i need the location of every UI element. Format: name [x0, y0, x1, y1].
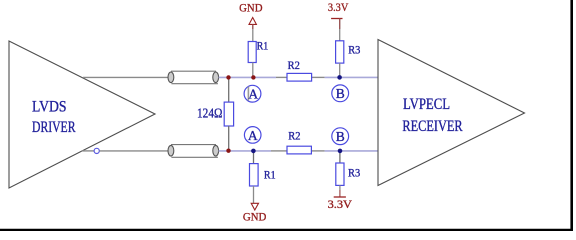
svg-text:R3: R3: [348, 166, 360, 180]
wire T2 output to node A bottom (lavender): [219, 150, 271, 152]
ground symbol bottom: [251, 203, 258, 210]
svg-text:A: A: [248, 87, 258, 102]
node B top circle: [332, 85, 349, 102]
svg-text:B: B: [336, 86, 345, 101]
label LVDS DRIVER: [32, 99, 76, 137]
junction dot T2/124Ω: [226, 149, 230, 153]
ground symbol top: [249, 18, 256, 30]
wire T1 output to node A (lavender): [219, 76, 276, 78]
node A bottom circle: [244, 127, 261, 144]
svg-text:LVPECL: LVPECL: [403, 96, 450, 113]
label 3.3V bottom: [328, 197, 353, 211]
value label 124Ω: [197, 107, 222, 122]
label GND bottom: [243, 210, 267, 224]
svg-text:RECEIVER: RECEIVER: [402, 118, 463, 135]
svg-text:124Ω: 124Ω: [197, 107, 222, 122]
label R2 bottom: [288, 128, 300, 142]
power symbol 3.3V top: [331, 19, 342, 30]
resistor R2 top: [287, 73, 312, 81]
svg-text:GND: GND: [243, 210, 267, 224]
junction dot T1/124Ω: [226, 75, 230, 79]
wire R2 right to node B bottom then receiver: [312, 150, 379, 152]
label LVPECL RECEIVER: [402, 96, 463, 135]
resistor 124Ω between pair: [224, 77, 233, 150]
transmission line T1 (top cable): [168, 71, 219, 84]
wire driver inverting output: [100, 150, 169, 152]
resistor R3 top: [336, 19, 344, 78]
svg-text:R2: R2: [288, 58, 300, 72]
power symbol 3.3V bottom: [334, 196, 346, 198]
node A top circle: [244, 85, 261, 102]
resistor R1 bottom: [250, 151, 259, 203]
label R2 top: [288, 58, 300, 72]
svg-text:LVDS: LVDS: [32, 99, 67, 116]
resistor R2 bottom: [287, 146, 311, 154]
svg-text:R3: R3: [348, 42, 360, 56]
label R1 top: [257, 39, 269, 53]
svg-text:A: A: [248, 128, 258, 143]
node B bottom circle: [332, 128, 349, 145]
wire node A bottom to R2 left (gray): [271, 150, 287, 152]
wire R2 right to node B top (gray then lavender): [312, 76, 379, 78]
op-amp U2 LVPECL receiver triangle: [378, 40, 525, 186]
frame lines: [570, 0, 573, 231]
op-amp U1 LVDS driver triangle: [9, 41, 155, 188]
svg-text:3.3V: 3.3V: [328, 0, 349, 14]
junction dot node B bottom: [338, 149, 343, 154]
svg-text:GND: GND: [239, 1, 263, 15]
svg-text:3.3V: 3.3V: [328, 197, 353, 211]
transmission line T2 (bottom cable): [168, 145, 219, 158]
svg-text:DRIVER: DRIVER: [32, 119, 76, 136]
wire driver edge to bubble: [82, 150, 95, 152]
resistor R3 bottom: [336, 151, 344, 197]
inversion bubble on driver output: [94, 148, 99, 153]
resistor R1 top: [248, 24, 256, 77]
label GND top: [239, 1, 263, 15]
wire driver noninverting output: [83, 76, 168, 78]
junction dot R1 bottom: [251, 149, 256, 154]
wire node A to R2 left (gray): [276, 76, 287, 78]
junction dot node B top: [337, 75, 342, 80]
svg-text:R2: R2: [288, 128, 300, 142]
label R3 top: [348, 42, 360, 56]
junction dot R1 top: [251, 75, 255, 79]
label 3.3V top: [328, 0, 349, 14]
svg-text:R1: R1: [257, 39, 269, 53]
svg-text:B: B: [336, 129, 345, 144]
label R3 bottom: [348, 166, 360, 180]
svg-text:R1: R1: [264, 168, 276, 182]
label R1 bottom: [264, 168, 276, 182]
